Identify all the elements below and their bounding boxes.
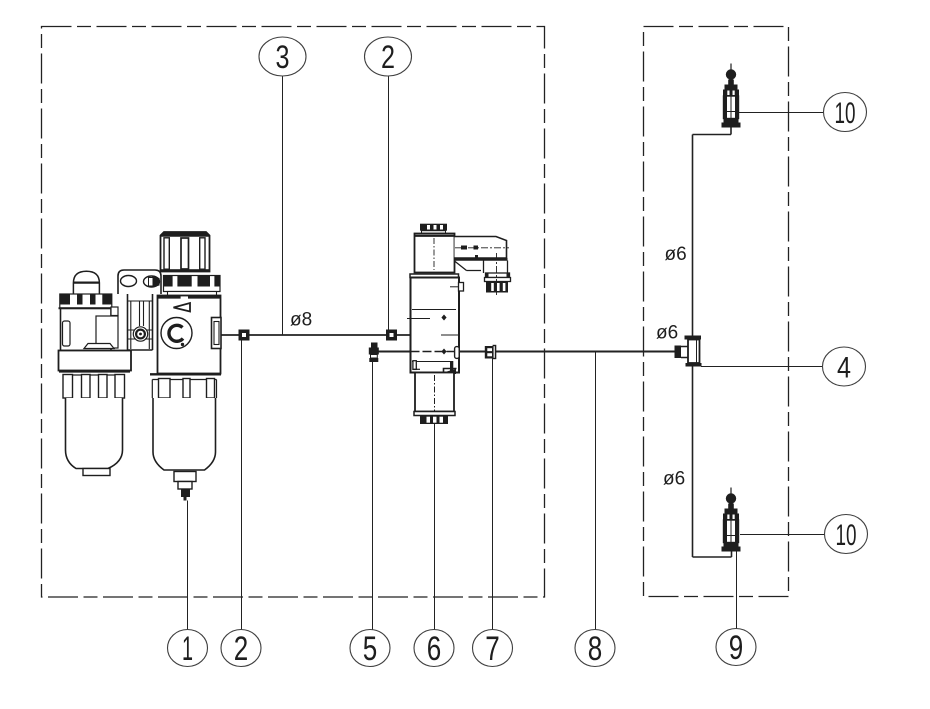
valve outlet port boss (455, 347, 460, 359)
regulator bonnet ring (castellated) (164, 276, 221, 292)
enclosure: right dashed boundary (644, 27, 789, 597)
bracket screw (133, 327, 147, 341)
svg-text:5: 5 (363, 630, 378, 668)
filter drain (174, 472, 196, 482)
body mounting feet (413, 361, 416, 370)
pilot port tab (459, 283, 464, 292)
lubricator oil plug (84, 344, 114, 349)
lubricator bowl collar (castellated) (59, 370, 130, 372)
bracket plate (118, 270, 161, 294)
balloon 2 top (365, 37, 412, 76)
svg-text:1: 1 (182, 630, 193, 668)
svg-text:6: 6 (427, 630, 442, 668)
svg-text:ø6: ø6 (656, 323, 678, 344)
leader line balloon 2 (top) (388, 76, 390, 330)
valve manual override cap (420, 224, 447, 231)
lubricator cap ring (castellated) (60, 294, 112, 308)
lubricator inner block (96, 316, 118, 348)
regulator body (168, 292, 217, 296)
pipe: valve outlet to tee (Ø6), hidden inside valve body (379, 351, 675, 353)
solenoid valve V1 (407, 224, 511, 424)
FRL unit U1 (59, 232, 222, 501)
leader line balloon 5 (372, 362, 374, 630)
balloon 10 bottom (825, 515, 868, 554)
leader line balloon 10 (bottom) (740, 534, 825, 536)
lubricator bowl (66, 398, 123, 469)
leader line balloon 8 (595, 352, 597, 630)
fitting F2a (on Ø8 pipe) (239, 330, 250, 341)
fitting F7 (union on Ø6 pipe) (485, 345, 497, 359)
leader line balloon 9 (736, 552, 738, 629)
pipe: riser upper segment (693, 128, 732, 339)
lubricator side tab (111, 307, 118, 316)
regulator knob (161, 232, 210, 272)
leader line balloon 2 (bottom) (241, 341, 243, 630)
balloon 1 (168, 630, 208, 667)
enclosure: left dashed boundary (42, 27, 545, 598)
leader line balloon 3 (282, 76, 284, 335)
balloon 5 (350, 630, 390, 667)
connector neck (455, 261, 508, 274)
valve body (410, 274, 459, 278)
lubricator bowl tab (83, 469, 110, 476)
bracket hole right with nut (144, 276, 160, 287)
leader line balloon 1 (187, 501, 189, 630)
balloon 4 (823, 347, 866, 386)
connector flange (486, 273, 510, 278)
leader line balloon 6 (434, 424, 436, 630)
pipe: riser lower segment (693, 367, 732, 558)
balloon 7 (473, 630, 513, 667)
solenoid coil (415, 234, 455, 273)
throttle muffler M2 (bottom) (722, 488, 741, 552)
base silencer (420, 416, 448, 425)
flow arrow (174, 303, 191, 312)
fitting F2b (on Ø8 pipe at valve) (386, 330, 397, 341)
svg-text:4: 4 (837, 352, 851, 385)
lubricator body (61, 309, 112, 351)
leader line balloon 4 (701, 366, 823, 368)
bracket column (128, 294, 153, 350)
svg-text:7: 7 (485, 630, 500, 668)
balloon 9 (716, 629, 756, 666)
lubricator dome (73, 271, 99, 294)
fitting F5 (valve inlet elbow) (369, 343, 379, 363)
filter bowl collar (castellated) (150, 373, 221, 375)
lubricator flange (59, 351, 132, 371)
svg-text:3: 3 (276, 39, 290, 75)
svg-text:10: 10 (836, 519, 857, 552)
tee fitting T1 (675, 336, 702, 367)
leader line balloon 7 (492, 358, 494, 630)
filter bowl (153, 398, 216, 470)
balloon 3 (259, 37, 306, 76)
cable gland (486, 282, 508, 293)
bracket hole left (121, 276, 137, 287)
leader line balloon 10 (top) (739, 112, 824, 114)
pipe: FRL to valve (Ø8) (221, 334, 411, 336)
svg-text:ø8: ø8 (290, 310, 312, 331)
svg-text:8: 8 (588, 630, 603, 668)
svg-text:ø6: ø6 (665, 244, 687, 265)
svg-text:10: 10 (835, 97, 856, 130)
balloon 10 top (824, 93, 867, 132)
balloon 2 bottom (221, 630, 261, 667)
DIN connector housing (455, 237, 507, 259)
valve sub-base (415, 373, 454, 412)
throttle muffler M1 (top) (722, 64, 741, 128)
lubricator sight slot (63, 321, 71, 346)
svg-text:9: 9 (729, 629, 744, 667)
balloon 8 (575, 630, 615, 667)
svg-text:ø6: ø6 (663, 469, 685, 490)
svg-text:2: 2 (234, 630, 249, 668)
adjustment dial (161, 318, 192, 349)
balloon 6 (414, 630, 454, 667)
svg-text:2: 2 (381, 39, 395, 75)
outlet port (212, 318, 222, 349)
